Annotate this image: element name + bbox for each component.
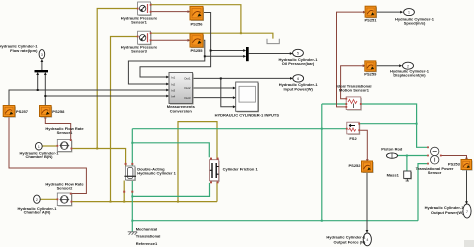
wire PS: power sensor output to PS253: [441, 156, 467, 159]
PS-converter PS256: [190, 6, 204, 21]
wire PS: flow sensor1 P output up and left to PS258: [45, 117, 70, 140]
PS-converter PS255: [190, 34, 204, 48]
wire signal: PS256 out staircase to MC In1: [140, 13, 211, 78]
connection port oval: piston rod: [387, 153, 398, 158]
svg-text:7: 7: [466, 210, 468, 214]
wire signal: branch to oil mux input2: [205, 55, 245, 57]
svg-text:In2: In2: [171, 82, 176, 86]
junction Out1 / subsystem branch: [220, 77, 222, 79]
wire mech: branch down to Mass1: [406, 156, 408, 171]
svg-text:Reference1: Reference1: [136, 241, 158, 246]
arrow into MC In3: [166, 89, 169, 92]
PS-converter PS253: [461, 160, 473, 171]
svg-text:PS252: PS252: [348, 163, 361, 168]
junction mass branch: [406, 155, 408, 157]
junction B-node bridge left leg: [177, 201, 179, 203]
wire mech: cylinder case port down to reference: [131, 181, 133, 232]
mass1 block: [404, 171, 412, 181]
arrow into speed outport: [400, 11, 403, 14]
wire PS: PS257 loop down and around to flow sensor2: [9, 117, 86, 194]
wire PS: FS2 output down to PS252: [359, 130, 367, 160]
svg-text:In3: In3: [171, 88, 176, 92]
svg-text:Chamber B(N): Chamber B(N): [26, 154, 54, 159]
wire mech: bottom loop: [132, 220, 418, 222]
svg-text:3: 3: [41, 53, 43, 57]
svg-text:PS255: PS255: [190, 48, 203, 53]
svg-text:Sensor: Sensor: [428, 170, 442, 175]
svg-text:PS253: PS253: [448, 161, 461, 166]
wire mech: to motion sensor left port: [322, 103, 346, 105]
junction B-node bottom left: [110, 201, 112, 203]
tank / vent symbol: [267, 39, 279, 44]
arrow into PS256: [188, 10, 191, 13]
svg-text:Hydraulic Cylinder 1: Hydraulic Cylinder 1: [137, 171, 176, 176]
hydraulic flow rate sensor1: [57, 139, 73, 152]
wire mech: vertical x=321.8 motion sensor to bottom loop: [321, 104, 323, 221]
wire signal: MC Out2 to subsystem in1: [193, 87, 235, 89]
junction rod/friction branch: [131, 142, 133, 144]
wire signal: PS253 down to output power outport: [466, 170, 468, 203]
mux for flow rate display: [35, 70, 49, 72]
junction bottom loop x=321.8: [321, 220, 323, 222]
ideal translational motion sensor1: [345, 97, 361, 111]
arrow into output force outport: [366, 230, 369, 233]
svg-text:6: 6: [297, 77, 299, 81]
svg-text:Translational: Translational: [136, 234, 161, 239]
junction A-node: [96, 148, 98, 150]
PS-converter PS257: [3, 106, 16, 118]
svg-text:Motion Sensor1: Motion Sensor1: [339, 88, 370, 93]
svg-text:Chamber A(N): Chamber A(N): [24, 210, 51, 215]
svg-text:Sensor1: Sensor1: [57, 130, 74, 135]
svg-text:HYDRAULIC CYLINDER-1 INPUTS: HYDRAULIC CYLINDER-1 INPUTS: [215, 113, 280, 118]
svg-text:1: 1: [408, 11, 410, 15]
wire hydraulic B-node: flow sensor2 B port along bottom: [71, 201, 217, 203]
svg-text:5: 5: [297, 52, 299, 56]
PS-converter PS252: [362, 161, 374, 173]
svg-text:2: 2: [36, 198, 38, 202]
svg-text:4: 4: [366, 238, 368, 242]
svg-text:Mass1: Mass1: [387, 172, 400, 177]
svg-text:Flow rate(lpm): Flow rate(lpm): [10, 48, 38, 53]
svg-text:Input Power(W): Input Power(W): [284, 86, 314, 91]
wire mech: case branch to cylinder friction bottom: [132, 183, 209, 197]
outport oval: flow rate (vertical): [39, 50, 45, 59]
svg-text:Oil Pressure(bar): Oil Pressure(bar): [282, 61, 315, 66]
arrow into flow rate outport: [41, 59, 44, 62]
svg-text:Mechanical: Mechanical: [136, 227, 158, 232]
wire mech: long rod line to FS2: [132, 128, 346, 130]
svg-text:Displacement(m): Displacement(m): [393, 72, 426, 77]
wire hydraulic: chamber A port oval to flow sensor2: [40, 198, 57, 200]
wire signal: Out1 branch down to subsystem in3: [221, 78, 234, 106]
svg-text:FS2: FS2: [349, 136, 357, 141]
force sensor FS2: [346, 122, 360, 135]
arrow into MC In4: [166, 95, 169, 98]
subsystem HYDRAULIC CYLINDER-1 INPUTS: [236, 82, 259, 112]
wire mech: FS2 right port to x=416.6 vertical: [359, 123, 416, 125]
junction long rod line x=321.8: [321, 128, 323, 130]
mux for oil pressure: [246, 47, 249, 61]
arrow into input power outport: [290, 77, 293, 80]
junction top tan run x241: [240, 32, 242, 34]
hydraulic pressure sensor3: [137, 31, 152, 45]
junction In3 line / flow mux branch: [37, 89, 39, 91]
svg-text:Speed(m/s): Speed(m/s): [404, 21, 426, 26]
double-acting hydraulic cylinder block: [123, 163, 136, 193]
outport oval: oil pressure: [293, 49, 304, 56]
wire signal: PS257 up to MC In3: [9, 90, 168, 105]
inport oval: chamber B: [35, 142, 42, 150]
arrow into oil mux in1: [243, 49, 246, 52]
wire signal: branch to oil mux input1: [211, 50, 245, 52]
wire signal: PS259 to displacement outport: [376, 65, 401, 67]
wire signal: PS251 to speed outport: [376, 11, 402, 13]
svg-text:PS258: PS258: [52, 109, 65, 114]
junction PS255 line / mux2 branch: [204, 55, 206, 57]
translational power sensor: [427, 146, 442, 164]
wire hydraulic: pressure sensor3 port A left run down to B-node bottom: [111, 37, 138, 202]
wire hydraulic: chamber B port oval to flow sensor1: [42, 145, 57, 147]
PS-converter PS258: [40, 106, 53, 118]
wire signal: flow mux output up to flow rate outport: [41, 61, 43, 71]
svg-text:Sensor3: Sensor3: [131, 49, 148, 54]
PS-converter PS251: [365, 6, 377, 18]
wire mech: motion sensor right port to power sensor top port: [361, 104, 427, 147]
wire hydraulic: pressure sensor3 port B run to tank: [151, 33, 273, 38]
svg-text:Out1: Out1: [184, 77, 191, 81]
svg-text:Cylinder Friction 1: Cylinder Friction 1: [223, 166, 259, 171]
junction In4 line / flow mux branch: [44, 95, 46, 97]
wire hydraulic: cylinder port B down to B-node: [123, 181, 125, 202]
svg-text:Output Force (N): Output Force (N): [334, 239, 366, 244]
wire signal: branch up to flow mux input1: [37, 74, 39, 91]
svg-text:PS251: PS251: [364, 18, 377, 23]
arrow into PS255: [188, 39, 191, 42]
wire hydraulic: bridge loop around cylinder friction: [178, 122, 217, 202]
arrow into MC In1: [166, 76, 169, 79]
arrow into PS252 top: [366, 159, 369, 162]
svg-text:In4: In4: [171, 94, 176, 98]
arrow into PS259: [363, 64, 366, 67]
wire mech: power sensor bottom port down to bottom loop: [418, 164, 427, 221]
arrow into subsystem in2: [233, 96, 236, 99]
svg-text:In1: In1: [171, 75, 176, 79]
wire hydraulic A-node: flow sensor1 B port to cylinder port A: [71, 149, 125, 167]
inport oval: chamber A: [34, 195, 41, 203]
wire PS: motion sensor P output up to PS259: [341, 66, 364, 99]
outport oval: speed: [404, 9, 415, 16]
outport oval: output force (vertical): [363, 233, 371, 246]
arrow into oil mux in2: [243, 55, 246, 58]
wire PS: pressure sensor1 P output to PS256: [151, 11, 189, 13]
junction case/bottom loop: [131, 220, 133, 222]
arrow into flow mux in2: [44, 72, 47, 75]
measurements conversion block: [169, 73, 194, 105]
wire signal: branch up to flow mux input2: [44, 74, 46, 97]
wire signal: PS258 up to MC In4: [45, 96, 167, 105]
hydraulic pressure sensor1: [137, 2, 152, 16]
wire signal: PS252 down to output force outport: [366, 172, 368, 231]
junction case/friction branch: [131, 195, 133, 197]
junction B-node cylinder tap: [123, 201, 125, 203]
svg-text:Piston Rod: Piston Rod: [381, 147, 403, 152]
wire PS: motion sensor V output up to PS251: [337, 12, 365, 107]
svg-text:Out3: Out3: [184, 96, 191, 100]
wire signal: oil mux output to oil pressure outport: [249, 53, 291, 55]
outport oval: displacement: [403, 62, 414, 69]
arrow into subsystem in3: [233, 105, 236, 108]
arrow into PS253 top: [465, 158, 468, 161]
wire mech: rod branch to cylinder friction top: [132, 143, 209, 158]
svg-text:Conversion: Conversion: [170, 108, 193, 113]
cylinder friction 1 block: [210, 158, 220, 184]
outport oval: output power (vertical): [463, 204, 471, 218]
PS-converter PS259: [365, 61, 377, 72]
faint watermark bottom-right: [464, 240, 474, 247]
arrow into PS251: [363, 11, 366, 14]
hydraulic flow rate sensor2: [57, 193, 73, 207]
junction PS256 line / mux1 branch: [210, 50, 212, 52]
wire PS: pressure sensor3 P output to PS255: [151, 39, 189, 41]
wire signal: PS255 out staircase to MC In2: [128, 40, 204, 84]
wire hydraulic: pressure sensor1 port A left run down to A-node: [97, 9, 137, 149]
svg-text:Out2: Out2: [184, 86, 191, 90]
arrow into oil pressure outport: [290, 52, 293, 55]
arrow into flow mux in1: [36, 72, 39, 75]
outport oval: input power: [293, 75, 304, 82]
arrow into PS258 bottom: [44, 115, 47, 118]
svg-text:PS256: PS256: [190, 21, 203, 26]
wire signal: MC Out3 to subsystem in2: [193, 97, 235, 99]
svg-text:PS259: PS259: [364, 71, 377, 76]
svg-text:Sensor1: Sensor1: [131, 19, 148, 24]
svg-text:1: 1: [38, 145, 40, 149]
mechanical translational reference1 symbol: [128, 232, 138, 235]
wire mech: piston rod port to power sensor middle port: [397, 155, 427, 157]
arrow into MC In2: [166, 83, 169, 86]
wire signal: MC Out1 to input power outport: [193, 77, 292, 79]
wire mech: cylinder rod port up: [131, 129, 133, 166]
arrow into output power outport: [465, 201, 468, 204]
svg-text:Output Power(W): Output Power(W): [431, 210, 464, 215]
wire hydraulic: pressure sensor1 port B to top tan run: [151, 5, 241, 34]
arrow into subsystem in1: [233, 87, 236, 90]
svg-text:Sensor2: Sensor2: [57, 186, 74, 191]
svg-text:PS257: PS257: [16, 109, 29, 114]
junction FS2 line meets vertical: [416, 123, 418, 125]
arrow into displacement outport: [399, 64, 402, 67]
